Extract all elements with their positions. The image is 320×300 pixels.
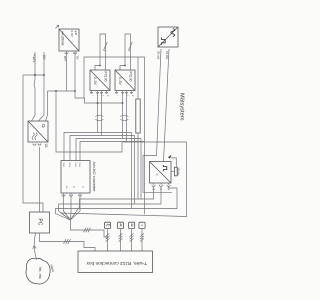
wire harness to ADC ch3 (80, 142, 145, 161)
wire U4 pin3 to funnel (56, 187, 178, 221)
svg-text:gnd: gnd (64, 56, 68, 61)
corridor vertical vB (144, 57, 146, 214)
svg-text:gnd: gnd (74, 31, 78, 36)
icon pulse U4 (163, 165, 166, 171)
svg-text:Mätsystem: Mätsystem (178, 93, 184, 121)
wire PC to balloon (34, 233, 36, 259)
svg-text:0..5V: 0..5V (70, 31, 74, 37)
resistor R1 (136, 99, 140, 133)
svg-text:D-: D- (73, 186, 75, 189)
wire rail X44 down (39, 75, 45, 121)
switch mark P2 (129, 42, 133, 51)
pin U2 cups (33, 144, 36, 146)
svg-text:0..5V: 0..5V (93, 77, 97, 85)
pins P2 (116, 91, 118, 94)
wire supply horizontal (23, 74, 44, 76)
wire left rail down to PC (23, 75, 43, 212)
transducer P2 box PX100 (115, 70, 135, 91)
jack S2 (117, 222, 123, 228)
transducer P1 box PX100 (90, 70, 110, 91)
converter U1 4-20mA box (59, 29, 79, 51)
timer box U4 (150, 162, 172, 184)
svg-text:PC: PC (36, 219, 42, 226)
svg-text:PX100: PX100 (129, 72, 133, 82)
pins P1 (91, 91, 93, 94)
wire gnd bus to transducers (75, 91, 123, 103)
svg-text:PX100: PX100 (104, 72, 108, 82)
pins ADC bottom (63, 193, 65, 200)
connection box (78, 251, 153, 273)
node bus tap T1 (97, 102, 99, 104)
hatch jack wires (106, 233, 144, 241)
wire harness to ADC ch0 (64, 133, 132, 161)
svg-text:21 blå: 21 blå (165, 51, 169, 59)
wire long loop to right side (56, 91, 187, 220)
wire U4 pin2 to funnel (59, 187, 162, 220)
svg-text:32kHz: 32kHz (177, 167, 181, 176)
wire PC data line (40, 233, 96, 251)
wire top long horizontal Y57 (84, 57, 145, 98)
switch mark P1 (104, 42, 108, 51)
wire jack4 down (141, 229, 143, 251)
wire jack3 down (131, 229, 133, 251)
hatch stem (84, 228, 91, 233)
wire harness to ADC ch1 (70, 136, 135, 161)
svg-text:CH1: CH1 (68, 163, 70, 168)
timer box wires from pulse converter (143, 49, 172, 192)
node bus tap T2 (122, 102, 124, 104)
wire funnel stem (71, 220, 108, 238)
svg-text:0V: 0V (75, 56, 79, 60)
wire U1 pin1 down (66, 51, 68, 91)
pin U1 out cup (65, 52, 68, 54)
node junction C (55, 90, 57, 92)
wire U1 pin2 down (74, 51, 76, 91)
icon sine (171, 29, 175, 37)
wire rail X35 down with switch (32, 75, 36, 121)
pins U4 bottom (153, 183, 155, 185)
node junction B (43, 74, 45, 76)
pin U1 gnd cup (73, 52, 76, 54)
wire 0V vertical (43, 52, 45, 75)
wire third input to converter (46, 91, 48, 121)
connector J2 arcs (120, 115, 128, 116)
wire harness to ADC ch2 (76, 139, 141, 161)
svg-text:G: G (82, 186, 84, 188)
balloon note (26, 258, 50, 284)
svg-text:0..5V: 0..5V (118, 77, 122, 85)
svg-text:CH3: CH3 (78, 163, 80, 168)
crystal X1 (171, 170, 174, 172)
jack S3 (129, 222, 135, 228)
wire jack2 down (120, 229, 122, 251)
annotation arrow A (168, 155, 172, 159)
wire horizontal Y91 (48, 90, 76, 92)
transducer P2 loop wires (120, 34, 131, 70)
icon pulse (161, 37, 165, 44)
PC box (30, 212, 50, 233)
wire U2 to PC (39, 147, 41, 212)
node junction D (74, 90, 76, 92)
svg-text:Ω: Ω (40, 124, 46, 128)
svg-text:4ch A/D converter: 4ch A/D converter (92, 162, 96, 193)
svg-text:CH2: CH2 (74, 163, 76, 168)
ADC box (61, 161, 90, 194)
svg-text:T-wire, RJ12 connection box: T-wire, RJ12 connection box (86, 260, 147, 266)
wire P1 signal pair down (97, 103, 99, 133)
jack S1 (104, 222, 110, 228)
funnel cable bundle (64, 200, 71, 220)
svg-text:+4-20mA: +4-20mA (60, 31, 64, 46)
wire U4 pin1 to funnel (71, 187, 154, 220)
jack S4 (139, 222, 145, 228)
transducer P1 loop wires (95, 34, 106, 70)
converter U2 signal box (28, 121, 48, 142)
wire jack1 down (107, 229, 109, 251)
node junction A (34, 74, 36, 76)
wire +12V vertical (34, 52, 36, 75)
svg-text:15: 15 (44, 143, 48, 147)
annotation arrow U1 (56, 26, 59, 29)
svg-text:lm, ms: lm, ms (38, 267, 43, 279)
svg-text:20 röd: 20 röd (157, 51, 161, 60)
svg-text:+12V: +12V (32, 54, 36, 63)
pulse converter U3 box (158, 27, 178, 47)
connector J1 arcs (95, 115, 103, 116)
svg-text:CH0: CH0 (62, 163, 64, 168)
